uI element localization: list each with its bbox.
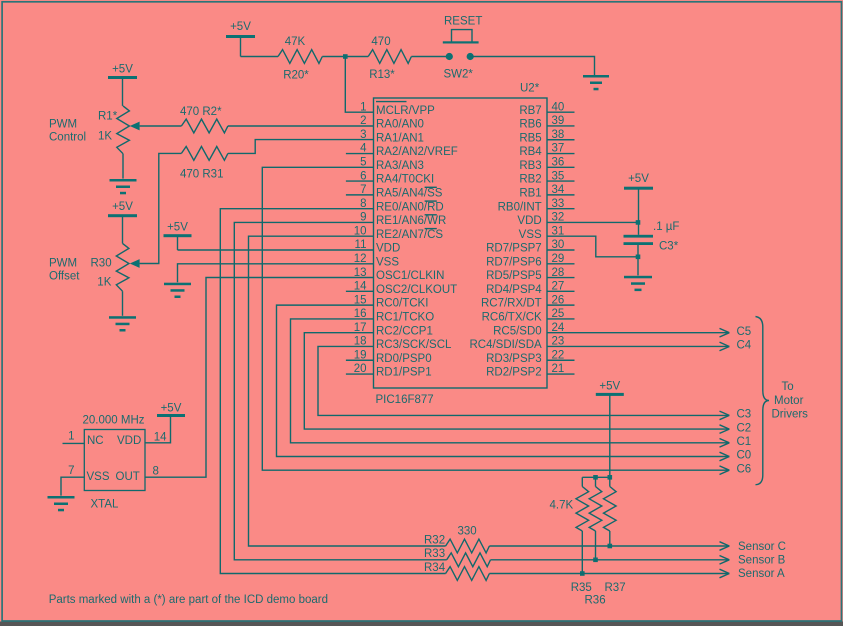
wire pin 40 stub bbox=[547, 111, 575, 113]
svg-text:R20*: R20* bbox=[283, 70, 309, 82]
svg-text:RC1/TCKO: RC1/TCKO bbox=[376, 312, 434, 324]
svg-text:RE1/AN6/WR: RE1/AN6/WR bbox=[376, 215, 446, 227]
wire bbox=[595, 531, 597, 560]
svg-text:1: 1 bbox=[68, 431, 74, 443]
wire R30 to ground bbox=[122, 291, 124, 316]
svg-text:C5: C5 bbox=[737, 326, 752, 338]
wire pin 23 RC4 to C4 bbox=[547, 345, 729, 347]
resistor R35 4.7K bbox=[576, 477, 589, 573]
arrow C6 bbox=[720, 466, 730, 475]
wire pin 33 stub bbox=[547, 208, 575, 210]
node R36-SensorB bbox=[593, 558, 598, 563]
wire bbox=[581, 531, 583, 574]
svg-text:RB4: RB4 bbox=[519, 146, 542, 158]
svg-text:4.7K: 4.7K bbox=[550, 500, 574, 512]
svg-text:R36: R36 bbox=[585, 595, 606, 607]
ground (R30) bbox=[109, 316, 136, 331]
wire bbox=[581, 477, 583, 486]
svg-text:C4: C4 bbox=[737, 340, 752, 352]
svg-text:1: 1 bbox=[360, 101, 366, 113]
svg-text:RD7/PSP6: RD7/PSP6 bbox=[486, 256, 542, 268]
svg-text:VSS: VSS bbox=[87, 471, 110, 483]
svg-text:R13*: R13* bbox=[369, 69, 395, 81]
svg-text:R34: R34 bbox=[424, 562, 446, 574]
crystal oscillator XTAL bbox=[84, 430, 145, 491]
power +5V (R30) bbox=[108, 201, 137, 243]
svg-text:U2*: U2* bbox=[520, 83, 540, 95]
wire bbox=[241, 56, 279, 58]
arrow Sensor B bbox=[720, 556, 730, 565]
svg-text:14: 14 bbox=[154, 431, 167, 443]
svg-text:470 R2*: 470 R2* bbox=[180, 106, 222, 118]
wire pin 22 stub bbox=[547, 359, 575, 361]
wire pin 17 RC2 to C2 bbox=[304, 333, 729, 429]
svg-text:RB7: RB7 bbox=[519, 105, 541, 117]
svg-text:RB1: RB1 bbox=[519, 188, 541, 200]
svg-text:RA5/AN4/SS: RA5/AN4/SS bbox=[376, 188, 443, 200]
node R35-SensorA bbox=[580, 571, 585, 576]
svg-text:C6: C6 bbox=[737, 463, 752, 475]
brace To Motor Drivers bbox=[756, 317, 770, 485]
overline MCLR bbox=[376, 101, 407, 103]
arrow C0 bbox=[720, 452, 730, 461]
overline CS bbox=[425, 228, 437, 230]
resistor R2 470 bbox=[181, 119, 228, 133]
svg-text:C3*: C3* bbox=[659, 241, 679, 253]
power +5V (C3) bbox=[624, 173, 653, 235]
wire pin 29 stub bbox=[547, 263, 575, 265]
wire bbox=[411, 56, 448, 58]
svg-text:Parts marked with a (*) are pa: Parts marked with a (*) are part of the … bbox=[49, 594, 328, 606]
svg-text:R32: R32 bbox=[424, 535, 445, 547]
node R37-SensorC bbox=[608, 544, 613, 549]
wire pin 26 stub bbox=[547, 304, 575, 306]
pushbutton SW2 bbox=[443, 16, 483, 81]
wire pin 30 stub bbox=[547, 249, 575, 251]
wire R2 to pin 2 bbox=[228, 125, 374, 127]
wire pin 35 stub bbox=[547, 180, 575, 182]
svg-text:R30: R30 bbox=[91, 258, 112, 270]
svg-text:20.000 MHz: 20.000 MHz bbox=[83, 414, 145, 426]
wire XTAL OUT to OSC1 pin 13 bbox=[145, 278, 374, 478]
svg-text:RC3/SCK/SCL: RC3/SCK/SCL bbox=[376, 339, 452, 351]
arrow C4 bbox=[720, 342, 730, 351]
overline WR bbox=[425, 214, 437, 216]
svg-text:RB6: RB6 bbox=[519, 119, 541, 131]
svg-text:SW2*: SW2* bbox=[444, 69, 474, 81]
wire pin 36 stub bbox=[547, 166, 575, 168]
wire pin 31 VSS to C3 cap bbox=[547, 236, 638, 257]
power +5V (VDD pin11) bbox=[164, 222, 192, 251]
svg-text:1K: 1K bbox=[97, 277, 111, 289]
power +5V (XTAL) bbox=[157, 403, 185, 418]
svg-text:XTAL: XTAL bbox=[91, 498, 120, 510]
svg-text:RA3/AN3: RA3/AN3 bbox=[376, 160, 424, 172]
wire pin 9 RE1 to Sensor B bbox=[234, 222, 446, 559]
wire pin 7 stub bbox=[346, 194, 374, 196]
svg-text:OSC1/CLKIN: OSC1/CLKIN bbox=[376, 270, 444, 282]
svg-text:RB5: RB5 bbox=[519, 132, 541, 144]
svg-text:1K: 1K bbox=[98, 130, 112, 142]
wire R1 wiper bbox=[140, 125, 182, 127]
svg-text:470 R31: 470 R31 bbox=[180, 169, 223, 181]
ground (XTAL) bbox=[48, 496, 75, 511]
wire Sensor A line bbox=[489, 573, 729, 575]
svg-text:RA0/AN0: RA0/AN0 bbox=[376, 119, 424, 131]
wire pin 21 stub bbox=[547, 373, 575, 375]
arrow C3 bbox=[720, 411, 730, 420]
svg-text:12: 12 bbox=[354, 253, 367, 265]
resistor R31 470 bbox=[181, 147, 228, 161]
wire XTAL pin14 to +5V bbox=[145, 416, 171, 443]
svg-text:RD1/PSP1: RD1/PSP1 bbox=[376, 367, 432, 379]
svg-text:Sensor A: Sensor A bbox=[738, 568, 785, 580]
svg-text:RA2/AN2/VREF: RA2/AN2/VREF bbox=[376, 146, 458, 158]
wire bbox=[595, 477, 597, 486]
svg-text:Sensor C: Sensor C bbox=[738, 541, 786, 553]
svg-text:VSS: VSS bbox=[376, 256, 399, 268]
IC U2 PIC16F877 bbox=[374, 98, 548, 388]
svg-text:RC5/SD0: RC5/SD0 bbox=[493, 325, 542, 337]
svg-text:.1 µF: .1 µF bbox=[653, 221, 679, 233]
svg-text:+5V: +5V bbox=[161, 403, 182, 415]
svg-text:+5V: +5V bbox=[112, 201, 133, 213]
svg-text:C3: C3 bbox=[737, 409, 752, 421]
svg-text:RC6/TX/CK: RC6/TX/CK bbox=[482, 312, 542, 324]
wire pin 27 stub bbox=[547, 290, 575, 292]
wire pin 24 RC5 to C5 bbox=[547, 332, 729, 334]
svg-text:C1: C1 bbox=[737, 436, 752, 448]
svg-text:330: 330 bbox=[458, 526, 477, 538]
wire pin 19 stub bbox=[346, 359, 374, 361]
wire pin 20 stub bbox=[346, 373, 374, 375]
svg-text:+5V: +5V bbox=[230, 21, 251, 33]
ground (SW2) bbox=[583, 75, 609, 90]
resistor R33 330 bbox=[447, 553, 491, 567]
svg-text:PIC16F877: PIC16F877 bbox=[376, 394, 434, 406]
wire pin 8 RE0 to Sensor A bbox=[220, 209, 445, 574]
svg-text:Sensor B: Sensor B bbox=[738, 554, 786, 566]
svg-text:47K: 47K bbox=[285, 36, 306, 48]
arrow C2 bbox=[720, 425, 730, 434]
ground (VSS pin12) bbox=[164, 283, 191, 298]
wire R31 to pin 3 bbox=[228, 140, 374, 154]
svg-text:To: To bbox=[782, 381, 794, 393]
capacitor C3 bbox=[624, 235, 654, 245]
wire pin 37 stub bbox=[547, 153, 575, 155]
wire C3 to ground bbox=[637, 245, 639, 275]
svg-text:RB3: RB3 bbox=[519, 160, 541, 172]
wire pin 28 stub bbox=[547, 277, 575, 279]
svg-text:RE0/AN0/RD: RE0/AN0/RD bbox=[376, 201, 444, 213]
overline RD bbox=[425, 200, 437, 202]
node VSS-C3 bbox=[636, 255, 641, 260]
arrow C1 bbox=[720, 439, 730, 448]
wire pin 32 VDD to C3 cap bbox=[547, 221, 638, 223]
wire pin 34 stub bbox=[547, 194, 575, 196]
svg-text:MCLR/VPP: MCLR/VPP bbox=[376, 105, 435, 117]
svg-text:470: 470 bbox=[371, 36, 390, 48]
svg-text:RB0/INT: RB0/INT bbox=[498, 201, 542, 213]
svg-text:RC2/CCP1: RC2/CCP1 bbox=[376, 325, 433, 337]
svg-text:RESET: RESET bbox=[444, 16, 482, 28]
svg-text:VDD: VDD bbox=[376, 243, 400, 255]
svg-text:VSS: VSS bbox=[519, 229, 542, 241]
svg-text:VDD: VDD bbox=[517, 215, 541, 227]
wire Sensor C line bbox=[489, 545, 729, 547]
svg-text:VDD: VDD bbox=[117, 435, 141, 447]
svg-text:Drivers: Drivers bbox=[772, 409, 809, 421]
wire bbox=[609, 531, 611, 546]
svg-text:11: 11 bbox=[355, 239, 367, 251]
wire pin 38 stub bbox=[547, 139, 575, 141]
wire Sensor B line bbox=[491, 559, 730, 561]
svg-text:C2: C2 bbox=[737, 422, 752, 434]
svg-text:RE2/AN7/CS: RE2/AN7/CS bbox=[376, 229, 443, 241]
overline SS bbox=[425, 186, 437, 188]
wire bbox=[609, 477, 611, 486]
wire pin 15 RC0 to C0 bbox=[277, 305, 730, 456]
ground (C3) bbox=[624, 276, 652, 291]
svg-text:+5V: +5V bbox=[167, 222, 188, 234]
wire R1 to ground bbox=[122, 154, 124, 179]
svg-text:R33: R33 bbox=[424, 548, 445, 560]
svg-text:RC0/TCKI: RC0/TCKI bbox=[376, 298, 428, 310]
node R36 top bbox=[593, 475, 598, 480]
wire bbox=[322, 56, 368, 58]
svg-text:RC7/RX/DT: RC7/RX/DT bbox=[481, 298, 542, 310]
arrow Sensor A bbox=[720, 569, 730, 578]
resistor R34 330 bbox=[446, 567, 490, 581]
svg-text:RA4/T0CKI: RA4/T0CKI bbox=[376, 174, 434, 186]
wire XTAL pin7 to ground bbox=[61, 477, 84, 495]
svg-text:RD2/PSP2: RD2/PSP2 bbox=[486, 367, 542, 379]
arrow Sensor C bbox=[720, 542, 730, 551]
svg-text:Offset: Offset bbox=[49, 271, 80, 283]
svg-text:13: 13 bbox=[354, 267, 367, 279]
svg-text:OUT: OUT bbox=[116, 471, 140, 483]
node R37 top bbox=[608, 475, 613, 480]
svg-text:2: 2 bbox=[360, 115, 366, 127]
svg-text:PWM: PWM bbox=[49, 258, 77, 270]
svg-text:R35: R35 bbox=[571, 582, 592, 594]
power +5V (pullups) bbox=[596, 380, 624, 477]
wire pullup top rail bbox=[582, 476, 610, 478]
svg-text:RB2: RB2 bbox=[519, 174, 541, 186]
svg-text:RD4/PSP4: RD4/PSP4 bbox=[486, 284, 542, 296]
wire SW2 to ground bbox=[470, 57, 594, 76]
arrow C5 bbox=[720, 328, 730, 337]
wire pin 18 RC3 to C3 bbox=[318, 346, 729, 415]
node VDD-C3 bbox=[636, 220, 641, 225]
svg-text:3: 3 bbox=[360, 129, 366, 141]
wire pin 5 RA3 to C6 bbox=[262, 167, 729, 470]
svg-text:NC: NC bbox=[87, 435, 104, 447]
svg-text:RD5/PSP5: RD5/PSP5 bbox=[486, 270, 542, 282]
potentiometer R30 1K bbox=[116, 243, 139, 291]
svg-text:RD0/PSP0: RD0/PSP0 bbox=[376, 353, 432, 365]
svg-text:RD3/PSP3: RD3/PSP3 bbox=[486, 353, 542, 365]
svg-text:RC4/SDI/SDA: RC4/SDI/SDA bbox=[469, 339, 542, 351]
wire pin 12 VSS to ground bbox=[178, 264, 374, 283]
svg-text:Motor: Motor bbox=[774, 395, 804, 407]
ground (R1) bbox=[110, 179, 137, 194]
wire pin 6 stub bbox=[346, 180, 374, 182]
svg-text:Control: Control bbox=[49, 132, 86, 144]
svg-text:R1*: R1* bbox=[98, 110, 118, 122]
resistor R32 330 bbox=[446, 539, 490, 553]
wire +5V to pin 11 VDD bbox=[178, 249, 374, 251]
resistor R20 47K bbox=[278, 50, 322, 64]
wire XTAL pin1 stub bbox=[63, 442, 85, 444]
resistor R36 4.7K bbox=[589, 477, 602, 560]
svg-text:PWM: PWM bbox=[49, 119, 77, 131]
svg-text:7: 7 bbox=[68, 465, 74, 477]
svg-text:+5V: +5V bbox=[112, 64, 133, 76]
svg-text:+5V: +5V bbox=[599, 380, 620, 392]
svg-text:R37: R37 bbox=[605, 582, 626, 594]
svg-text:+5V: +5V bbox=[628, 173, 649, 185]
power +5V (top rail) bbox=[226, 21, 255, 57]
wire R30 wiper to R31 bbox=[140, 153, 182, 263]
power +5V (R1) bbox=[108, 64, 137, 106]
wire MCLR to pin 1 bbox=[345, 57, 373, 113]
svg-text:8: 8 bbox=[153, 466, 159, 478]
wire pin 10 RE2 to Sensor C bbox=[249, 236, 446, 546]
node MCLR junction bbox=[343, 54, 348, 59]
svg-text:OSC2/CLKOUT: OSC2/CLKOUT bbox=[376, 284, 457, 296]
svg-text:RA1/AN1: RA1/AN1 bbox=[376, 132, 424, 144]
wire pin 4 stub bbox=[346, 153, 374, 155]
svg-text:C0: C0 bbox=[737, 450, 752, 462]
resistor R37 4.7K bbox=[604, 477, 617, 546]
wire pin 39 stub bbox=[547, 125, 575, 127]
resistor R13 470 bbox=[368, 50, 411, 64]
svg-text:RD7/PSP7: RD7/PSP7 bbox=[486, 243, 542, 255]
wire pin 14 stub bbox=[346, 290, 374, 292]
wire pin 16 RC1 to C1 bbox=[291, 319, 730, 443]
wire pin 25 stub bbox=[547, 318, 575, 320]
potentiometer R1 1K bbox=[117, 106, 140, 154]
